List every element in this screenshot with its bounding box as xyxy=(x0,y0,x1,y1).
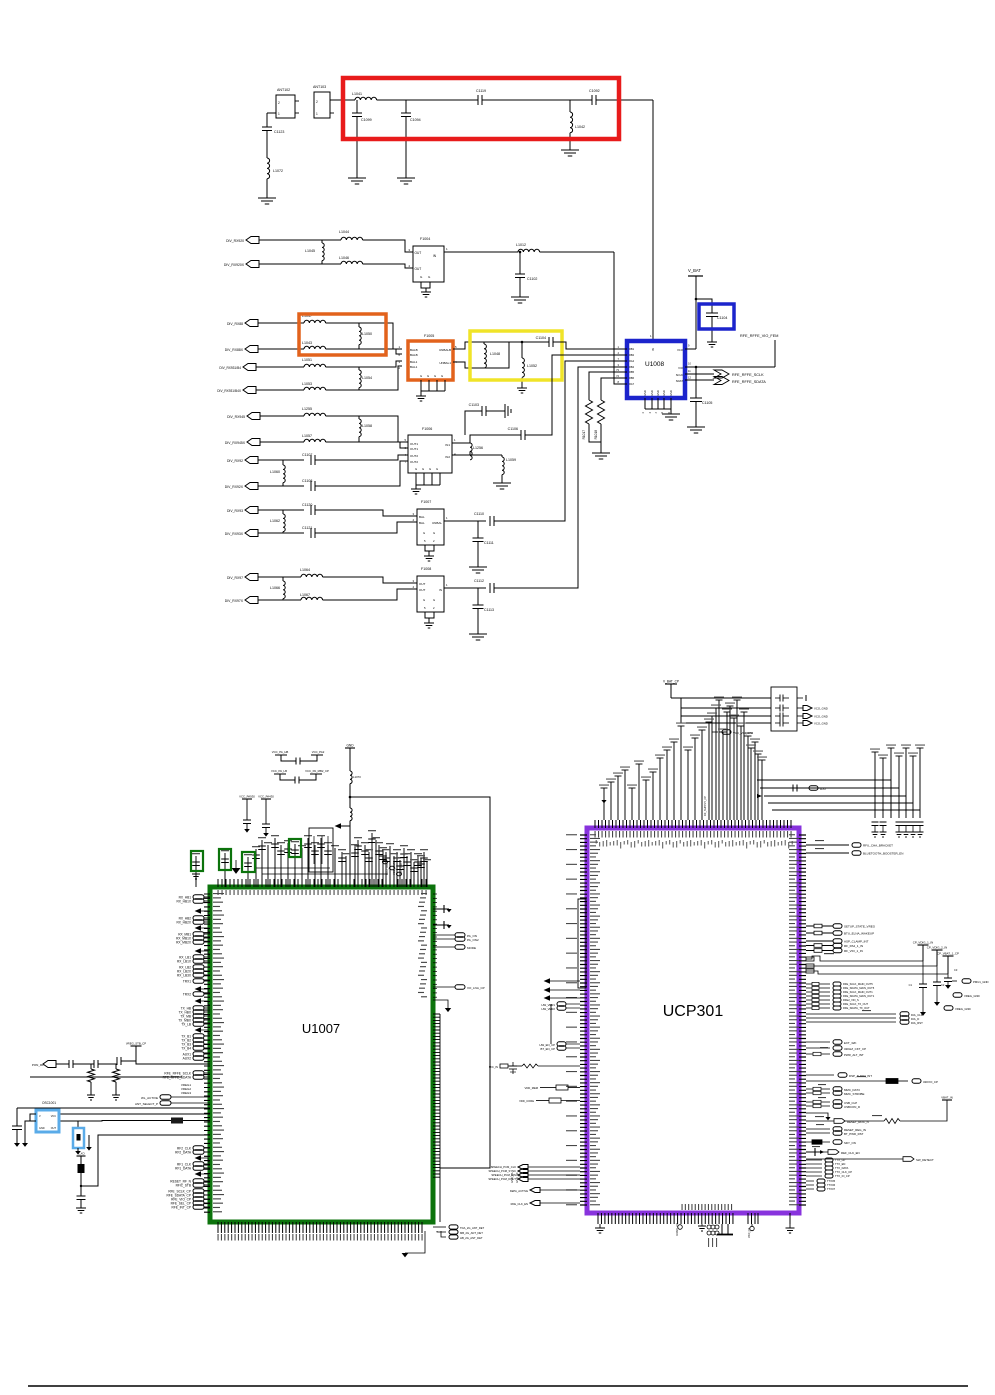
svg-text:MIC_IN: MIC_IN xyxy=(489,1065,498,1069)
capacitor C1119 (series) xyxy=(477,95,479,105)
U1008 bottom pins GND xyxy=(644,398,646,409)
inductor L1054 (shunt) xyxy=(358,367,360,370)
wire DIV_RX93 to C1120 xyxy=(258,509,304,511)
UCP301 right TTX port cluster 2 xyxy=(806,1180,814,1182)
wire F1005 UNBAL1 output xyxy=(453,362,484,368)
svg-text:TTX_IO_CP: TTX_IO_CP xyxy=(835,1174,850,1178)
svg-text:IN: IN xyxy=(439,588,442,592)
svg-text:CP_VDIG_2_IN: CP_VDIG_2_IN xyxy=(927,946,947,950)
svg-text:UNBAL: UNBAL xyxy=(432,521,442,525)
svg-text:TTX06: TTX06 xyxy=(827,1183,836,1187)
IC U1007 (green outline) xyxy=(210,887,433,1222)
wire top net to C1104 xyxy=(484,341,549,343)
inductor L1255 xyxy=(304,413,326,416)
svg-text:DIV_RX88: DIV_RX88 xyxy=(227,322,243,326)
filter F1004 xyxy=(413,246,444,282)
F1006 ground pins xyxy=(416,473,440,485)
left arrow 5 xyxy=(195,998,201,1004)
second ground stub right of crystal xyxy=(88,1135,90,1147)
svg-text:RFU_CHA_BRACKET: RFU_CHA_BRACKET xyxy=(863,844,893,848)
U1007 left port group 14 xyxy=(193,1179,204,1184)
ground below F1004 xyxy=(421,291,431,293)
U1007 left port group 5 xyxy=(193,965,204,970)
UCP301 left ports HW_EN group xyxy=(557,1042,566,1046)
svg-text:F1004: F1004 xyxy=(420,237,430,241)
U1007 bottom pin stubs xyxy=(218,1222,422,1233)
inductor L1041 xyxy=(355,97,377,100)
svg-text:G: G xyxy=(436,467,438,471)
power flag V_BAT_CP xyxy=(665,683,677,685)
U1007 right pin labels inside upper xyxy=(421,893,427,894)
svg-text:RFE_SDATA_MAIN_OUT5: RFE_SDATA_MAIN_OUT5 xyxy=(843,986,875,990)
svg-text:L1043: L1043 xyxy=(302,341,312,345)
ground below U1008 xyxy=(662,413,680,415)
series cap with port on bus xyxy=(786,787,793,789)
inductor L1072 xyxy=(267,158,270,179)
resistor R1017 xyxy=(586,400,593,424)
port DIV_RX93 xyxy=(245,507,258,514)
svg-text:VCC_PA430: VCC_PA430 xyxy=(258,795,274,799)
cap on VDIG2 column xyxy=(936,966,938,982)
port RFE_RFFE_SCLK xyxy=(714,370,729,378)
svg-text:C1103: C1103 xyxy=(469,403,479,407)
svg-text:L1070: L1070 xyxy=(353,775,361,779)
svg-text:CP_VBAT_1_CP: CP_VBAT_1_CP xyxy=(937,952,959,956)
net RFE_RFFE_VIO_FEM xyxy=(774,340,776,367)
power flag VCC_PA430 xyxy=(261,798,271,800)
caps on right columns xyxy=(872,821,879,823)
wire DIV_RX920X to L1046 xyxy=(259,263,341,265)
UCP301 right port PWR_RST xyxy=(806,1053,830,1055)
balun F1005 (orange outline) xyxy=(408,341,453,380)
U1007 right port 2 xyxy=(433,938,455,940)
UCP301 RFFE out ports stack xyxy=(806,983,830,985)
wire RX920 net down to U1008 pin8 xyxy=(614,252,620,384)
vertical link wire between port rows xyxy=(550,1004,552,1044)
svg-text:C1121: C1121 xyxy=(302,526,312,530)
charge pump bus wires xyxy=(806,956,923,961)
wire L1047 to F1005 BALB xyxy=(326,323,402,349)
left arrow 2 xyxy=(195,925,201,931)
ground arrow in fan left xyxy=(601,800,606,803)
half arrow hook right xyxy=(806,1113,828,1117)
svg-text:RF_SUPPLY_CP: RF_SUPPLY_CP xyxy=(703,796,707,816)
svg-text:G: G xyxy=(423,598,425,602)
svg-text:XO_LNA_CP: XO_LNA_CP xyxy=(467,986,485,990)
svg-text:TTX_DATA: TTX_DATA xyxy=(835,1166,849,1170)
svg-text:RB1: RB1 xyxy=(629,347,635,351)
svg-text:VDD_MEM: VDD_MEM xyxy=(525,1086,539,1090)
svg-text:VREG_GND: VREG_GND xyxy=(955,1007,971,1011)
capacitor C1106 (series) xyxy=(520,430,522,440)
svg-text:RFE_INT_CP: RFE_INT_CP xyxy=(172,1205,191,1209)
inductor L1050 (shunt) xyxy=(358,323,360,327)
svg-text:32KXO_CP: 32KXO_CP xyxy=(923,1080,938,1084)
yellow highlight box xyxy=(470,331,562,380)
svg-text:RFE_SCLK_MAIN_OUT1: RFE_SCLK_MAIN_OUT1 xyxy=(843,990,873,994)
svg-text:VIO: VIO xyxy=(678,366,684,370)
inductor L1042 (shunt) xyxy=(569,100,571,112)
blue highlight box around C1104 xyxy=(699,304,734,329)
port VREG_GND 2 xyxy=(944,1006,953,1010)
svg-text:G: G xyxy=(415,467,417,471)
caps inside box xyxy=(779,695,781,702)
long wire U1007 top to right loop xyxy=(350,797,490,1168)
svg-text:OUT2: OUT2 xyxy=(410,454,418,458)
ferrite bead on chain xyxy=(78,1164,85,1173)
ground below C1099 xyxy=(348,177,366,179)
ground arrow in cluster xyxy=(232,868,241,874)
svg-text:VCO: VCO xyxy=(677,348,684,352)
svg-text:VCC_PA_MB2_CP: VCC_PA_MB2_CP xyxy=(305,769,329,773)
wire DIV_RX97X to L1067 xyxy=(258,599,301,601)
svg-text:TTX_CP: TTX_CP xyxy=(835,1158,846,1162)
svg-text:MB_2G_ANT_DET: MB_2G_ANT_DET xyxy=(460,1231,483,1235)
svg-text:1: 1 xyxy=(316,112,318,116)
svg-text:L1060: L1060 xyxy=(270,470,280,474)
ground below C1104 xyxy=(707,341,717,343)
UCP301 right port RF_PA2_IN xyxy=(806,945,833,947)
svg-text:L1062: L1062 xyxy=(270,519,280,523)
left arrow 1 xyxy=(195,908,201,914)
svg-text:C1123: C1123 xyxy=(274,130,284,134)
svg-text:RFE_RFFE_SDATA: RFE_RFFE_SDATA xyxy=(732,380,766,384)
inductor L1043 xyxy=(304,346,326,349)
U1008 right pins VCO VIO SCLK SDAT xyxy=(685,348,696,350)
inductor L1057 xyxy=(304,439,326,442)
wire DIV_RX92 to C1107 xyxy=(258,459,304,461)
capacitor C1110 (series) xyxy=(489,516,491,526)
capacitor C1123 xyxy=(262,126,272,128)
small ground left cluster xyxy=(195,866,197,872)
wire L1053 to F1005 BAL1b xyxy=(326,366,402,390)
capacitor C1099 (shunt) xyxy=(356,100,358,113)
svg-text:G: G xyxy=(434,374,436,378)
svg-text:G: G xyxy=(429,467,431,471)
wire DIV_RX945X to L1052B xyxy=(260,441,304,443)
ground below F1008 xyxy=(424,622,434,624)
UCP301 left SPEECH ports xyxy=(518,1165,528,1170)
inductor L1070 (vertical) xyxy=(350,771,352,784)
capacitor C1113 (shunt) xyxy=(477,588,479,605)
svg-text:VCC_PA2: VCC_PA2 xyxy=(312,750,325,754)
inductor L1047 xyxy=(304,320,326,323)
svg-text:RB6: RB6 xyxy=(629,376,635,380)
svg-text:TX_LB: TX_LB xyxy=(181,1022,191,1026)
ground below C1113 xyxy=(469,633,487,635)
wire resistors to ground xyxy=(589,424,601,442)
U1007 left port group 4 xyxy=(193,955,204,960)
arrow on bus xyxy=(757,794,762,798)
svg-text:C1099: C1099 xyxy=(361,118,372,122)
power flag GND_PA xyxy=(345,747,355,749)
svg-text:DIV_RX93: DIV_RX93 xyxy=(227,509,243,513)
UCP301 top pin labels inside xyxy=(595,831,596,838)
wire pin5 to R1017 xyxy=(589,372,620,400)
svg-text:VCO_OUT2: VCO_OUT2 xyxy=(392,860,396,875)
capacitor C1104A (series) xyxy=(548,337,550,347)
svg-text:RX_HB2X: RX_HB2X xyxy=(176,920,191,924)
svg-text:L1051: L1051 xyxy=(302,358,312,362)
svg-text:TDA_2G_ANT_DET: TDA_2G_ANT_DET xyxy=(460,1226,485,1230)
svg-text:TTX_EN: TTX_EN xyxy=(835,1162,845,1166)
UCP301 right ports RESET_REG xyxy=(806,1128,830,1130)
svg-text:L1064: L1064 xyxy=(300,568,310,572)
svg-text:GND: GND xyxy=(669,390,673,396)
port DIV_RX920 xyxy=(246,237,259,244)
wire DIV_RX931X to L1053 xyxy=(256,389,304,391)
svg-text:REF_CLK_EN: REF_CLK_EN xyxy=(841,1151,860,1155)
flag CP_VDIG_2_IN xyxy=(932,949,943,951)
left arrow 4 xyxy=(195,986,201,992)
svg-text:RA7: RA7 xyxy=(629,382,635,386)
shunt resistor 1 on PON xyxy=(90,1064,92,1069)
svg-text:OUT: OUT xyxy=(415,251,422,255)
U1007 top pin stubs xyxy=(218,879,426,887)
U1007 right pin ladder to vertical bus xyxy=(433,1014,440,1177)
svg-text:SPEECH_PCM_SYNC: SPEECH_PCM_SYNC xyxy=(489,1169,517,1173)
bottom right port 2 xyxy=(449,1230,458,1234)
capacitor C1107 (series) xyxy=(310,455,312,465)
green box small 1 xyxy=(191,851,203,871)
svg-text:USBCON_D: USBCON_D xyxy=(844,1105,860,1109)
U1007 right port 3 xyxy=(433,946,455,948)
UCP301 left ports HW group xyxy=(557,1002,566,1006)
svg-text:SPEECH_PCM_DOUT: SPEECH_PCM_DOUT xyxy=(488,1177,516,1181)
svg-text:L1067: L1067 xyxy=(300,593,310,597)
svg-text:RB2: RB2 xyxy=(629,353,635,357)
port DIV_RX97X xyxy=(245,597,258,604)
svg-text:2: 2 xyxy=(316,100,318,104)
resistor to VBAT_IN flag xyxy=(845,1120,884,1122)
svg-text:DIV_RX92X: DIV_RX92X xyxy=(225,485,244,489)
UCP301 left pin labels (inside) xyxy=(590,834,596,835)
wire F1006 IN2 xyxy=(452,454,470,456)
svg-text:RX_HB1X: RX_HB1X xyxy=(176,899,191,903)
svg-text:TRX1: TRX1 xyxy=(183,979,191,983)
svg-text:C1105: C1105 xyxy=(702,401,712,405)
svg-text:L1059: L1059 xyxy=(506,458,516,462)
left arrow 6 xyxy=(195,1027,201,1033)
svg-text:C1112: C1112 xyxy=(474,579,484,583)
svg-text:DIV_RX931/B4X: DIV_RX931/B4X xyxy=(217,389,242,393)
UCP301 right port SDY_ON xyxy=(806,1141,830,1143)
U1007 left port group 3 xyxy=(193,932,204,937)
orange highlight box around L1047/L1050 xyxy=(299,314,386,355)
svg-text:OUT1: OUT1 xyxy=(410,442,418,446)
wire ANT102 to C1123 xyxy=(266,113,268,127)
svg-text:ANT_SELECT_P: ANT_SELECT_P xyxy=(135,1102,158,1106)
oscillator GND pin to ground arrow xyxy=(25,1121,36,1143)
svg-text:BLUETOOTH_BOOSTER_EN: BLUETOOTH_BOOSTER_EN xyxy=(863,852,903,856)
right power hook with bar xyxy=(806,1151,815,1153)
svg-text:U1007: U1007 xyxy=(302,1021,340,1036)
svg-text:PA_ON2: PA_ON2 xyxy=(467,938,479,942)
wire DIV_RX88 to L1047 xyxy=(258,322,304,324)
svg-text:L1046: L1046 xyxy=(339,256,349,260)
svg-text:BALB: BALB xyxy=(410,353,418,357)
UCP301 right pin stubs xyxy=(799,835,806,1205)
ground below L1059 xyxy=(493,482,511,484)
UCP301 right port 32KHZ_CKT_CP xyxy=(806,1047,830,1049)
svg-text:RF2_DATA: RF2_DATA xyxy=(175,1150,192,1154)
U1007 bottom pin labels below xyxy=(218,1234,219,1241)
UCP301 right port EXT_32K xyxy=(806,1041,830,1043)
svg-text:TTX_CLK_CP: TTX_CLK_CP xyxy=(835,1170,852,1174)
wire F1008 output to C1112 xyxy=(444,587,486,589)
UCP301 right port ASP_CLAMP_INT xyxy=(806,940,833,942)
svg-text:TX_B4: TX_B4 xyxy=(181,1046,191,1050)
net flag arrow xyxy=(341,825,350,827)
port DIV_RX88 xyxy=(245,320,258,327)
ground below F1005 xyxy=(416,395,426,397)
wire C1120 to F1007 BAL xyxy=(315,510,417,516)
tiny cap far right of U1007 xyxy=(509,1065,517,1067)
UCP301 bottom left ground xyxy=(599,1224,601,1228)
crystal element (light blue box small) xyxy=(77,1121,79,1129)
svg-text:SPEECH_PCM_CLK: SPEECH_PCM_CLK xyxy=(491,1165,516,1169)
UCP301 left arrows xyxy=(550,980,580,982)
inductor L1053 xyxy=(304,387,326,390)
central fan of supply wires above UCP301 xyxy=(604,700,762,820)
power flag Y_MID chain xyxy=(77,1155,86,1157)
left thin rectangle block xyxy=(578,899,586,988)
svg-text:L1072: L1072 xyxy=(273,169,283,173)
wire IN1 up to C1103 and right xyxy=(470,435,521,443)
svg-text:GND: GND xyxy=(346,744,354,748)
capacitor C1092 (series) xyxy=(591,95,593,105)
svg-text:DIA_RST: DIA_RST xyxy=(911,1021,923,1025)
port DIV_RX93X xyxy=(245,530,258,537)
svg-text:MODE: MODE xyxy=(467,946,476,950)
svg-text:SW_DETECT: SW_DETECT xyxy=(916,1158,934,1162)
ground below F1006 xyxy=(411,488,421,490)
svg-text:RFE_SCLK_MAIN_OUT5: RFE_SCLK_MAIN_OUT5 xyxy=(843,982,873,986)
IC UCP301 (purple outline) xyxy=(587,828,799,1213)
red highlight box xyxy=(343,78,619,139)
U1007 left port group 7 xyxy=(193,992,204,997)
svg-text:UCP301: UCP301 xyxy=(663,1003,724,1020)
inductor L1044 xyxy=(341,237,363,240)
svg-text:F1007: F1007 xyxy=(421,500,431,504)
svg-text:VCO_OUT1: VCO_OUT1 xyxy=(385,860,389,875)
bus segment above U1007 left xyxy=(255,867,330,869)
UCP301 bottom pin stubs xyxy=(598,1213,790,1224)
svg-text:GND: GND xyxy=(656,390,660,396)
U1007 bottom right bundle to ports xyxy=(433,1226,446,1228)
svg-text:C1111: C1111 xyxy=(484,541,494,545)
wire L1012 to RX bus xyxy=(540,251,614,253)
svg-text:C1104: C1104 xyxy=(536,336,546,340)
wire L1041 to C1119 xyxy=(377,99,478,101)
svg-text:BALB: BALB xyxy=(410,348,418,352)
port DIV_RX920X xyxy=(246,261,259,268)
green box small 4 xyxy=(289,839,301,857)
svg-text:F1006: F1006 xyxy=(422,427,432,431)
cap on CP_VBAT column xyxy=(947,974,949,978)
wire DIV_RX931 to L1051 xyxy=(256,366,304,368)
svg-text:ASP_CLAMP_INT: ASP_CLAMP_INT xyxy=(844,939,869,943)
capacitor C1103 branch xyxy=(465,411,482,435)
ports VCO_GND right of box xyxy=(797,697,803,699)
svg-text:C1107: C1107 xyxy=(302,453,312,457)
svg-text:L1066: L1066 xyxy=(270,586,280,590)
UCP301 left port RFE_CLK_EN xyxy=(530,1201,540,1206)
wire C1104A to U1008 pin1 xyxy=(553,342,620,349)
svg-text:GND: GND xyxy=(650,390,654,396)
inductor L1064 xyxy=(301,574,323,577)
port DIV_RX92X xyxy=(245,483,258,490)
capacitor C1111 (shunt) xyxy=(488,520,490,522)
flags on fan tops xyxy=(601,787,608,789)
F1005 ground pins xyxy=(421,380,445,391)
UCP301 top pin stubs xyxy=(595,820,791,828)
right columns above UCP301 xyxy=(875,748,920,818)
svg-text:DIV_RX920X: DIV_RX920X xyxy=(224,263,245,267)
svg-text:TRX2: TRX2 xyxy=(183,992,191,996)
UCP301 right port ELNA_WAKEUP xyxy=(806,932,833,934)
ground below L1042 xyxy=(561,149,579,151)
svg-text:VCO_GND: VCO_GND xyxy=(814,722,828,726)
svg-text:CP_VDIG_1_IN: CP_VDIG_1_IN xyxy=(913,941,933,945)
UCP301 right port RFU_CHG_DETECT top xyxy=(806,844,849,846)
component on clock wire near chip xyxy=(171,1118,183,1124)
svg-text:WL_ACTIVE: WL_ACTIVE xyxy=(141,1096,158,1100)
wire L1064 to F1008 OUT xyxy=(323,577,417,583)
U1007 left pin stubs xyxy=(204,894,210,1212)
svg-text:PON_RF: PON_RF xyxy=(32,1063,44,1067)
svg-text:L1057: L1057 xyxy=(302,434,312,438)
green box small 3 xyxy=(242,852,255,872)
U1007 right power stub 2 xyxy=(433,924,444,926)
wire ANT103 to matching network xyxy=(330,99,355,101)
series capacitor 1 on PON xyxy=(68,1060,70,1068)
wire RFFE from far left xyxy=(30,1076,182,1078)
decoupling connector box xyxy=(771,687,797,731)
wire DIV_RX92X to C1108 xyxy=(258,485,304,487)
inductor L1060 (shunt) xyxy=(282,460,284,465)
capacitor on chain xyxy=(77,1195,86,1197)
svg-text:DIV_RX945: DIV_RX945 xyxy=(227,415,245,419)
svg-text:RF1_DATA: RF1_DATA xyxy=(175,1166,192,1170)
ground arrow below cap xyxy=(14,1143,20,1147)
left arrow 8 xyxy=(195,1171,201,1177)
svg-text:VREG3: VREG3 xyxy=(181,1091,192,1095)
port PON_RF with RC filter xyxy=(43,1061,56,1068)
svg-text:SCLK: SCLK xyxy=(676,373,683,377)
wire DIV_RX88X to L1043 xyxy=(258,348,304,350)
svg-text:UNBALB: UNBALB xyxy=(439,348,451,352)
svg-text:DIV_RX931/B4: DIV_RX931/B4 xyxy=(219,366,241,370)
svg-text:DIV_RX945X: DIV_RX945X xyxy=(225,441,246,445)
U1007 left port group 2 xyxy=(193,916,204,921)
ground below C1102 xyxy=(511,296,529,298)
footer rule xyxy=(28,1385,968,1387)
U1007 left port group 8 xyxy=(193,1006,204,1011)
svg-text:VCC: VCC xyxy=(51,1115,56,1118)
svg-text:VCO_GND: VCO_GND xyxy=(814,715,828,719)
capacitor left of oscillator xyxy=(16,1108,18,1126)
U1007 top pin labels inside xyxy=(218,890,219,895)
capacitor C1102 (shunt) xyxy=(519,251,522,254)
svg-text:RFE_RFFE_VIO_FEM: RFE_RFFE_VIO_FEM xyxy=(740,334,778,338)
wire chain to clock net xyxy=(81,1135,210,1186)
svg-text:OUT: OUT xyxy=(419,588,426,592)
svg-text:HW_VER2: HW_VER2 xyxy=(541,1007,555,1011)
capacitor C1121 (series) xyxy=(310,528,312,538)
UCP301 DIA ports long wires xyxy=(806,1013,896,1015)
svg-text:RB5: RB5 xyxy=(629,370,635,374)
